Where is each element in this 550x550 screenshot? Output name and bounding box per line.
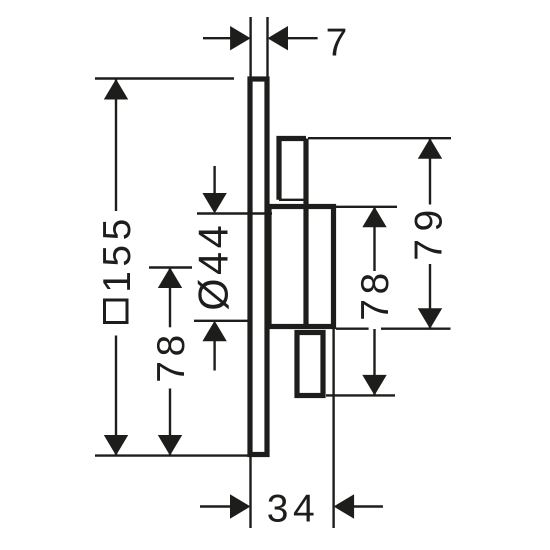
svg-text:7: 7 xyxy=(326,22,348,65)
lower knob body xyxy=(297,333,323,396)
centre axis tick (left 78 top reference) xyxy=(149,266,192,268)
svg-text:79: 79 xyxy=(408,202,451,260)
middle valve body xyxy=(269,207,334,327)
dimension 78 right : top extension line xyxy=(336,206,397,208)
upper knob right edge continuing through middle body xyxy=(303,139,308,327)
wall plate (side view, thick outline) xyxy=(250,79,267,455)
dimension 34 : left extension line xyxy=(249,456,251,528)
svg-text:155: 155 xyxy=(96,214,139,293)
svg-text:34: 34 xyxy=(267,488,319,531)
dimension dia44 : bottom tick xyxy=(194,320,251,322)
dimension 7 : extension line left (plate back) xyxy=(249,17,251,78)
dimension 79 : bottom extension line (gap at 78 line crossing) xyxy=(336,328,369,330)
dimension 78 left : dimension line with arrows xyxy=(169,268,171,328)
dimension 7 : extension line right (plate front) xyxy=(266,17,268,78)
dimension 78 right : bottom extension line xyxy=(326,394,395,396)
svg-text:78: 78 xyxy=(354,268,397,320)
dimension 34 : right extension line (from valve body front) xyxy=(332,329,334,528)
upper knob body (thick left/top/right) xyxy=(279,139,306,200)
svg-text:78: 78 xyxy=(150,330,193,382)
dimension square155 : top extension line xyxy=(95,77,234,79)
dimension 34 : left leader + arrow xyxy=(200,505,231,507)
dimension 34 : right leader + arrow xyxy=(354,505,383,507)
svg-text:Ø44: Ø44 xyxy=(190,222,237,311)
dimension 7 : right leader + arrow xyxy=(287,37,318,39)
dimension 7 : left leader + arrow xyxy=(203,37,231,39)
dimension 78 right : dimension line with arrows xyxy=(373,207,375,271)
dimension 79 : top extension line xyxy=(308,137,451,139)
dimension square155 : dimension line with arrows xyxy=(115,79,117,211)
dimension square155 : square symbol xyxy=(105,300,128,323)
upper knob bottom edge (thin) xyxy=(279,199,306,201)
dimension dia44 : top tick xyxy=(197,212,272,214)
dimension square155 : bottom extension line xyxy=(95,454,252,456)
dimension dia44 : upper arrow (pointing down) xyxy=(213,166,215,194)
dimension dia44 : lower arrow (pointing up) xyxy=(213,341,215,371)
dimension 79 : dimension line with arrows xyxy=(429,138,431,204)
